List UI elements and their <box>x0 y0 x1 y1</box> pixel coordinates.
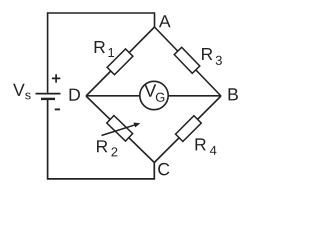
galvanometer VG circle <box>140 81 168 109</box>
resistor R3 body <box>174 47 200 73</box>
label R3 - R <box>202 48 212 60</box>
wire: left rail + top rail from source to node A <box>48 13 155 93</box>
resistor R4 body <box>176 116 202 142</box>
battery minus sign <box>55 108 60 110</box>
label R4 - subscript 4 <box>210 146 217 155</box>
wire arm D-A <box>86 27 155 96</box>
variable resistor R2 arrowhead <box>134 123 141 128</box>
label R1 - R <box>95 41 105 53</box>
variable resistor R2 arrow shaft <box>102 124 137 135</box>
node A label <box>159 15 171 27</box>
label R4 - R <box>196 138 206 150</box>
label R3 - subscript 3 <box>216 56 222 65</box>
galvanometer label G subscript <box>156 93 164 102</box>
wire: left rail bottom + bottom rail from source to node C <box>48 100 155 179</box>
wire arm A-B <box>155 27 222 96</box>
battery Vs positive plate (long) <box>36 93 61 95</box>
label R1 - subscript 1 <box>108 48 114 57</box>
battery Vs negative plate (short) <box>41 98 55 100</box>
resistor R2 body (variable) <box>107 116 133 142</box>
node D label <box>70 89 80 101</box>
resistor R1 body <box>107 49 133 75</box>
node C label <box>158 163 169 175</box>
wire arm D-C <box>86 96 154 163</box>
node B label <box>229 88 238 100</box>
label Vs - V <box>13 84 25 96</box>
label R2 - subscript 2 <box>111 147 117 156</box>
wire node D to galvanometer <box>86 95 140 97</box>
battery plus sign <box>52 74 60 82</box>
label Vs - s subscript <box>25 93 30 100</box>
wire arm C-B <box>154 96 221 163</box>
wire galvanometer to node B <box>168 95 221 97</box>
galvanometer label V <box>144 84 156 96</box>
label R2 - R <box>97 140 107 152</box>
